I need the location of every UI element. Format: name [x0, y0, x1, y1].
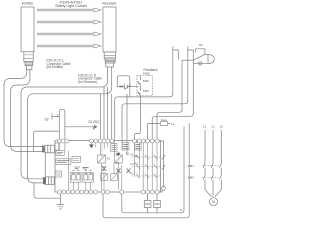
svg-text:KM1: KM1	[145, 203, 151, 206]
svg-text:L3: L3	[220, 125, 224, 129]
svg-text:N: N	[180, 208, 182, 212]
svg-text:K2: K2	[126, 152, 130, 156]
svg-text:24 VDC: 24 VDC	[88, 120, 100, 124]
svg-text:KM2: KM2	[188, 176, 195, 180]
svg-text:KM2: KM2	[155, 203, 161, 206]
svg-text:K1: K1	[135, 162, 139, 166]
svg-text:M: M	[212, 200, 215, 204]
svg-text:S1: S1	[120, 85, 124, 89]
svg-text:Safety Light Curtain: Safety Light Curtain	[55, 4, 87, 8]
svg-text:KM1: KM1	[188, 164, 195, 168]
svg-text:K2: K2	[131, 162, 135, 166]
svg-text:L1: L1	[203, 125, 207, 129]
svg-text:S1: S1	[199, 43, 203, 47]
svg-text:K1: K1	[131, 152, 135, 156]
svg-text:KM1: KM1	[143, 89, 149, 93]
svg-text:Receiver: Receiver	[102, 2, 117, 6]
svg-text:(for Receiver): (for Receiver)	[78, 80, 97, 84]
svg-text:K1: K1	[107, 157, 111, 161]
svg-text:KM2: KM2	[143, 79, 149, 83]
svg-text:(for Emitter): (for Emitter)	[47, 65, 64, 69]
svg-text:Fuse: Fuse	[161, 118, 168, 122]
svg-text:Emitter: Emitter	[22, 2, 34, 6]
svg-text:S2: S2	[45, 117, 49, 121]
svg-text:L2: L2	[211, 125, 215, 129]
svg-text:L1: L1	[171, 122, 175, 126]
svg-text:loop: loop	[144, 71, 150, 75]
svg-text:K1: K1	[116, 161, 120, 165]
svg-text:K2: K2	[135, 154, 139, 158]
svg-text:K1: K1	[131, 171, 135, 175]
